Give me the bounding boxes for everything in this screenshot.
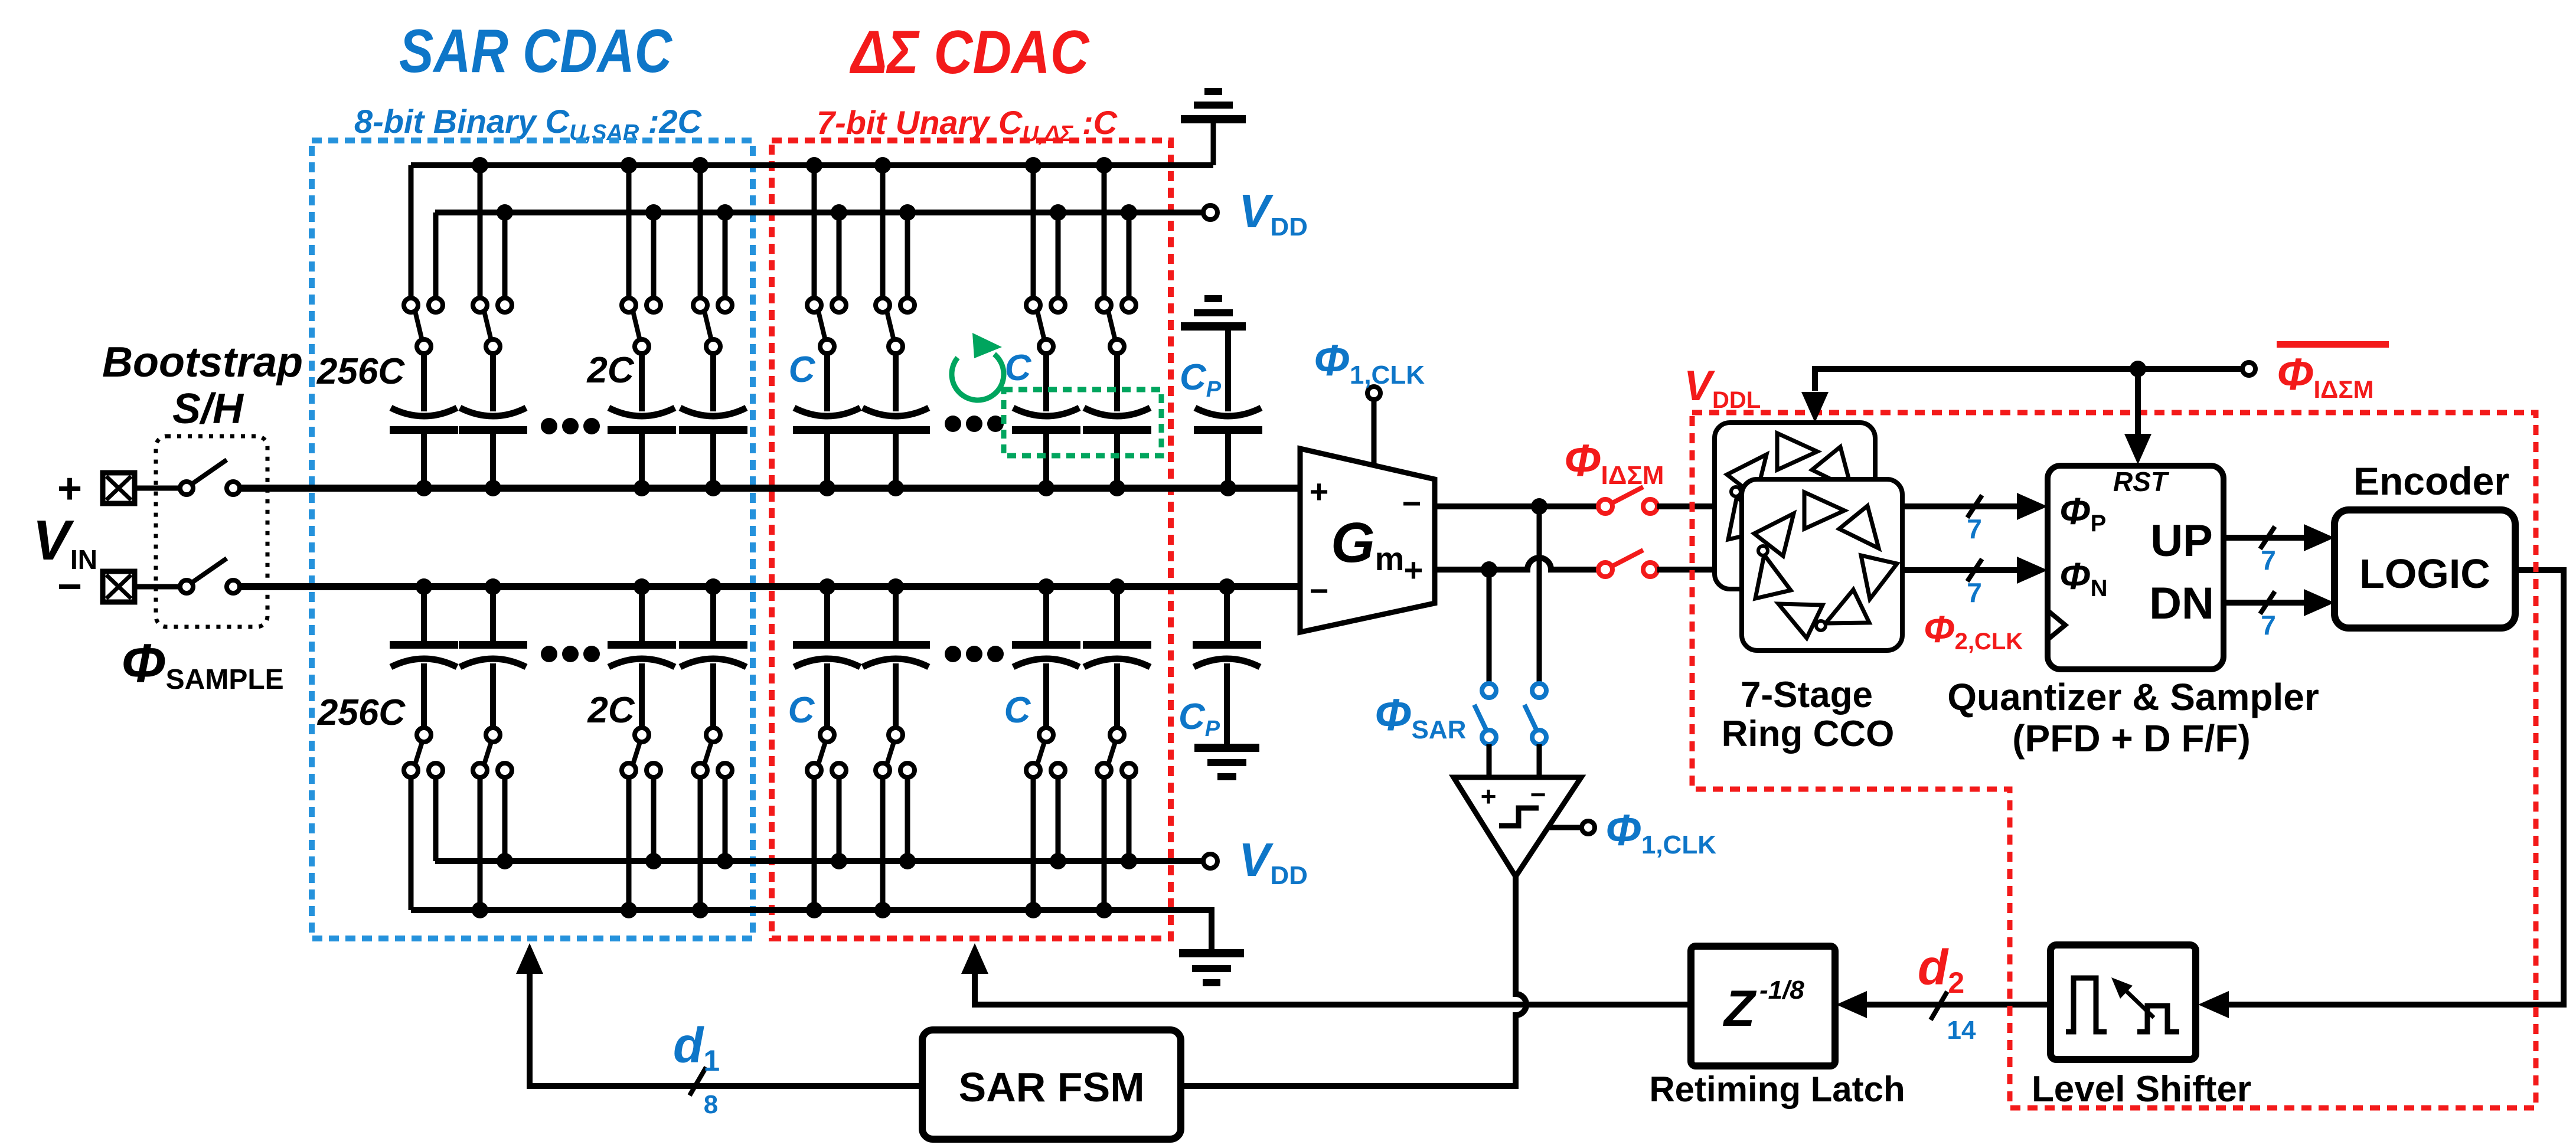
- svg-text:-1/8: -1/8: [1759, 976, 1804, 1005]
- svg-text:7: 7: [1967, 514, 1982, 544]
- node junction on plus line col 3: [634, 480, 650, 496]
- cap column 4: top-half SPDT switch: [698, 165, 703, 298]
- wire bottom ground rail: [411, 910, 1212, 951]
- wire minus signal line: [240, 583, 1300, 590]
- svg-text:Ring CCO: Ring CCO: [1722, 714, 1895, 754]
- capacitor bottom column 1: [416, 578, 432, 595]
- wire plus signal line: [240, 485, 1300, 492]
- svg-text:−: −: [1530, 779, 1546, 810]
- bus UP (7): [2224, 535, 2309, 541]
- node junction on plus line col 2: [485, 480, 501, 496]
- svg-text:+: +: [1310, 473, 1329, 510]
- node junction on plus line col 5: [819, 480, 835, 496]
- capacitor top column 2: [490, 354, 496, 411]
- block SAR FSM: [922, 1030, 1181, 1139]
- level shifter pulse icon: [2066, 978, 2107, 1032]
- Delta-Sigma CDAC dashed boundary box: [772, 140, 1171, 938]
- cap column 6: top-half SPDT switch: [880, 165, 886, 298]
- cap column 6: bottom-half SPDT switch: [889, 728, 903, 742]
- node junction on plus line col 8: [1109, 480, 1125, 496]
- ellipsis dots DS top: [945, 416, 961, 432]
- svg-text:C: C: [789, 349, 816, 390]
- capacitor top column 8: [1114, 354, 1120, 411]
- capacitor bottom column 7: [1038, 578, 1054, 595]
- wire down to SAR comparator left: [1487, 570, 1492, 684]
- cap column 3: top-half SPDT switch: [626, 165, 632, 298]
- svg-text:C: C: [1005, 348, 1032, 388]
- block 7-stage ring CCO (back): [1715, 423, 1875, 589]
- wire down to SAR comparator right: [1537, 506, 1542, 684]
- switch Phi SAR right (blue): [1532, 683, 1546, 698]
- svg-text:SAR FSM: SAR FSM: [959, 1064, 1145, 1110]
- clock wedge on quantizer: [2048, 611, 2065, 639]
- capacitor bottom column 8: [1109, 578, 1125, 595]
- svg-text:Quantizer & Sampler: Quantizer & Sampler: [1947, 676, 2319, 718]
- svg-text:2C: 2C: [586, 350, 634, 391]
- bus slash d1: [690, 1067, 706, 1095]
- switch Phi IDSM upper (red): [1598, 499, 1612, 514]
- bus slash d2: [1931, 992, 1947, 1020]
- wire top ground rail: [411, 162, 1213, 168]
- block 7-stage ring CCO (front): [1742, 479, 1902, 650]
- bus DN (7): [2224, 600, 2309, 606]
- cap column 8: top-half SPDT switch: [1102, 165, 1107, 298]
- cap column 7: top-half SPDT switch: [1031, 165, 1036, 298]
- wire LOGIC output down to level shifter: [2224, 570, 2564, 1005]
- capacitor bottom column 2: [485, 578, 501, 595]
- capacitor top column 7: [1043, 354, 1049, 411]
- svg-text:C: C: [788, 690, 815, 731]
- cap column 7: bottom-half SPDT switch: [1039, 728, 1053, 742]
- node junction on plus line col 4: [705, 480, 721, 496]
- svg-text:−: −: [1310, 572, 1329, 609]
- cap column 3: bottom-half SPDT switch: [635, 728, 649, 742]
- cap column 5: bottom-half SPDT switch: [820, 728, 834, 742]
- label Phi-bar IDSM (overlined): [2277, 341, 2389, 348]
- capacitor top column 3: [639, 354, 645, 411]
- green rotate arrow: [952, 354, 1004, 400]
- switch Phi IDSM lower (red): [1598, 562, 1612, 577]
- input terminal minus (crossed box): [103, 571, 135, 602]
- svg-text:7: 7: [1967, 577, 1982, 608]
- switch Phi SAR left (blue): [1482, 683, 1496, 698]
- comparator clock output: [1549, 825, 1582, 830]
- capacitor top column 5: [824, 354, 830, 411]
- terminal VDD bottom: [1203, 854, 1217, 868]
- wire blue switches to comparator: [1487, 744, 1492, 777]
- node junction on plus line col 6: [887, 480, 904, 496]
- capacitor top column 4: [710, 354, 716, 411]
- svg-text:Encoder: Encoder: [2353, 459, 2509, 503]
- svg-text:(PFD + D F/F): (PFD + D F/F): [2012, 717, 2251, 760]
- svg-text:2C: 2C: [587, 690, 635, 731]
- cap column 8: bottom-half SPDT switch: [1110, 728, 1124, 742]
- block Level Shifter: [2051, 945, 2196, 1059]
- svg-text:8: 8: [704, 1090, 718, 1119]
- wire Phi-bar IDSM distribution: [1815, 369, 2242, 391]
- svg-text:−: −: [1402, 485, 1422, 522]
- input terminal plus (crossed box): [103, 473, 135, 503]
- wire comparator output down to SAR FSM (with hop): [1183, 876, 1526, 1086]
- wire level shifter to Z-latch: [1861, 1002, 2051, 1008]
- ellipsis dots SAR bottom: [541, 646, 557, 662]
- comparator triangle: [1454, 777, 1581, 876]
- ground symbol bottom-right: [1179, 949, 1244, 957]
- cap column 5: top-half SPDT switch: [812, 165, 817, 298]
- block Z^-1/8 retiming latch: [1691, 946, 1835, 1066]
- terminal Phi1,CLK on Gm: [1367, 387, 1380, 400]
- capacitor CP top: [1195, 408, 1261, 416]
- svg-text:Z: Z: [1722, 980, 1757, 1037]
- green dashed dither box: [1004, 390, 1161, 456]
- svg-text:Level Shifter: Level Shifter: [2032, 1069, 2251, 1110]
- capacitor bottom column 4: [705, 578, 721, 595]
- ground symbol below Cp bottom: [1194, 744, 1259, 752]
- SAR CDAC dashed boundary box: [312, 140, 753, 938]
- ellipsis dots SAR top: [541, 418, 557, 434]
- red dashed region (VDDL domain): [1692, 413, 2536, 1108]
- node junction on plus line col 1: [416, 480, 432, 496]
- svg-text:Bootstrap: Bootstrap: [102, 339, 303, 386]
- svg-text:C: C: [1004, 690, 1031, 731]
- capacitor bottom column 3: [634, 578, 650, 595]
- svg-text:LOGIC: LOGIC: [2359, 551, 2490, 597]
- wire switch to CCO upper: [1657, 503, 1715, 509]
- svg-text:SAR CDAC: SAR CDAC: [399, 17, 673, 86]
- op-amp Gm transconductor: [1300, 449, 1435, 632]
- bus PhiN (7): [1902, 567, 2022, 573]
- ellipsis dots DS bottom: [945, 646, 961, 662]
- ground symbol above Cp top: [1204, 295, 1222, 302]
- hysteresis symbol: [1499, 808, 1539, 826]
- sampling switch plus: [135, 486, 180, 491]
- block LOGIC: [2335, 510, 2515, 628]
- node junction on plus line col 7: [1038, 480, 1054, 496]
- svg-text:+: +: [1404, 551, 1424, 588]
- svg-text:−: −: [57, 563, 82, 610]
- svg-text:7: 7: [2261, 545, 2276, 575]
- svg-text:S/H: S/H: [172, 385, 244, 433]
- svg-text:RST: RST: [2113, 466, 2170, 497]
- cap column 2: top-half SPDT switch: [478, 165, 483, 298]
- bus PhiP (7): [1902, 503, 2022, 509]
- capacitor top column 6: [893, 354, 899, 411]
- svg-text:+: +: [1481, 781, 1497, 812]
- wire Gm plus output with hop: [1435, 558, 1598, 570]
- wire Gm minus output: [1435, 503, 1598, 509]
- wire bottom VDD rail: [435, 858, 1203, 864]
- cap column 1: top-half SPDT switch: [409, 165, 414, 298]
- svg-text:ΔΣ CDAC: ΔΣ CDAC: [849, 18, 1090, 87]
- svg-text:UP: UP: [2150, 516, 2213, 566]
- terminal Phi-bar IDSM: [2242, 362, 2255, 375]
- svg-text:DN: DN: [2149, 578, 2214, 629]
- ground symbol top-right (inverted): [1211, 123, 1216, 165]
- svg-text:7-Stage: 7-Stage: [1741, 675, 1873, 715]
- sampling switch minus: [135, 584, 180, 590]
- capacitor top column 1: [421, 354, 427, 411]
- cap column 1: bottom-half SPDT switch: [417, 728, 431, 742]
- terminal VDD top: [1203, 205, 1217, 220]
- svg-text:Retiming Latch: Retiming Latch: [1649, 1069, 1905, 1109]
- svg-text:+: +: [57, 465, 82, 512]
- svg-text:7: 7: [2261, 610, 2276, 640]
- wire junction down to quantizer RST: [2135, 369, 2141, 438]
- svg-text:14: 14: [1947, 1016, 1976, 1045]
- cap column 4: bottom-half SPDT switch: [706, 728, 720, 742]
- capacitor bottom column 6: [887, 578, 904, 595]
- S/H dotted box: [156, 436, 267, 627]
- svg-text:256C: 256C: [316, 351, 405, 392]
- wire Z-latch output to DS CDAC (d2 delayed): [975, 974, 1691, 1005]
- cap column 2: bottom-half SPDT switch: [486, 728, 500, 742]
- block quantizer & sampler: [2048, 466, 2224, 669]
- wire switch to CCO lower: [1657, 567, 1742, 573]
- wire d1 feedback to SAR CDAC: [530, 974, 922, 1086]
- svg-text:256C: 256C: [317, 692, 406, 733]
- wire top VDD rail: [435, 210, 1203, 215]
- capacitor CP bottom: [1219, 578, 1235, 595]
- capacitor bottom column 5: [819, 578, 835, 595]
